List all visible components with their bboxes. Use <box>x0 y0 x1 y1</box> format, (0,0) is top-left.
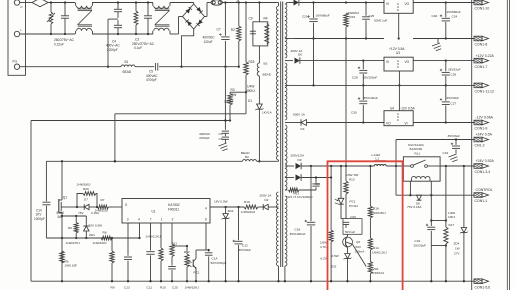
svg-text:R8: R8 <box>103 231 107 235</box>
svg-text:0.22uF: 0.22uF <box>54 43 64 47</box>
svg-text:B2: B2 <box>245 155 249 159</box>
svg-text:+24V 3.92A: +24V 3.92A <box>476 159 495 163</box>
svg-text:CONTROL: CONTROL <box>476 188 493 192</box>
svg-text:2: 2 <box>172 218 174 222</box>
inductor L1 <box>372 153 404 166</box>
svg-text:ZD4: ZD4 <box>454 241 460 245</box>
svg-text:6: 6 <box>205 218 207 222</box>
svg-text:R19: R19 <box>244 200 250 204</box>
varistor ZNR1 <box>47 1 55 35</box>
wire bridge left to AC <box>179 17 183 35</box>
terminal N (AC neutral) <box>14 28 22 37</box>
svg-text:35V33uF: 35V33uF <box>448 134 461 138</box>
connector CON1-5 6 <box>474 279 490 290</box>
regulator V1 <box>384 0 474 39</box>
resistor R14 <box>368 238 387 262</box>
svg-text:BEAD: BEAD <box>123 70 132 74</box>
svg-text:VI: VI <box>405 121 408 125</box>
fuse F1 <box>20 0 48 7</box>
resistor R9 <box>110 237 114 283</box>
svg-text:D: D <box>397 65 399 69</box>
svg-text:R11: R11 <box>172 242 178 246</box>
wire bridge top corner <box>193 3 195 5</box>
svg-text:C13: C13 <box>124 286 130 290</box>
capacitor C10 <box>34 161 50 238</box>
svg-text:R12: R12 <box>184 250 190 254</box>
svg-text:CON1-1: CON1-1 <box>475 199 488 203</box>
resistor R19 <box>241 200 258 214</box>
svg-text:3: 3 <box>127 218 129 222</box>
relay coil wires <box>410 181 431 195</box>
diode D5 <box>294 0 385 6</box>
connector CON1-7 <box>474 54 495 69</box>
svg-text:B1: B1 <box>125 60 129 64</box>
ferrite bead B1 <box>20 60 135 74</box>
resistor R17 <box>444 165 456 283</box>
svg-text:330KJ: 330KJ <box>224 99 233 103</box>
op-amp U1 KA7552 <box>122 199 210 224</box>
svg-text:C40: C40 <box>432 14 438 18</box>
svg-text:CON1-3,4: CON1-3,4 <box>475 170 491 174</box>
svg-text:1: 1 <box>161 218 163 222</box>
svg-text:R25: R25 <box>249 60 255 64</box>
svg-text:1W4.7J 1KV1000pF: 1W4.7J 1KV1000pF <box>286 195 313 199</box>
svg-text:120uF: 120uF <box>204 40 213 44</box>
snubber R4 C9 <box>249 3 269 64</box>
svg-text:4: 4 <box>138 218 140 222</box>
svg-text:C24: C24 <box>452 14 458 18</box>
svg-text:16V680uF: 16V680uF <box>447 10 461 14</box>
wire AC top <box>48 2 194 4</box>
wire primary return <box>31 119 230 281</box>
svg-text:35V33uF: 35V33uF <box>239 248 252 252</box>
svg-text:R17: R17 <box>449 223 455 227</box>
svg-text:C14: C14 <box>315 182 321 186</box>
page border right <box>507 0 509 290</box>
resistor R12 <box>172 245 190 283</box>
svg-text:16V680uF: 16V680uF <box>316 14 330 18</box>
transformer T3 <box>276 2 299 283</box>
svg-text:1/4W100J: 1/4W100J <box>93 241 107 245</box>
svg-text:C3: C3 <box>135 37 139 41</box>
ground C19 <box>449 154 458 162</box>
capacitor C28 <box>352 61 377 87</box>
resistor R13 <box>344 166 359 219</box>
svg-text:1KV1A: 1KV1A <box>262 111 273 115</box>
photocoupler PC1 LED <box>335 165 358 219</box>
diode D1 <box>248 99 273 162</box>
svg-text:R10: R10 <box>160 286 166 290</box>
AC input connector housing <box>8 0 26 75</box>
resistor R3 <box>224 88 246 121</box>
svg-text:D: D <box>397 8 399 12</box>
svg-text:400VAC: 400VAC <box>199 132 211 136</box>
svg-text:C29: C29 <box>350 215 356 219</box>
resistor R16 <box>344 11 360 167</box>
capacitor C5 <box>135 63 239 82</box>
diode D8 relay <box>407 195 422 209</box>
svg-text:VR1: VR1 <box>373 267 379 271</box>
connector CN1-2 <box>474 133 493 148</box>
svg-text:R7: R7 <box>101 198 105 202</box>
svg-text:4: 4 <box>205 206 207 210</box>
wire control line <box>396 166 474 196</box>
resistor R25 <box>244 3 256 114</box>
svg-text:4700pF: 4700pF <box>146 78 157 82</box>
wire U1 vcc <box>210 206 244 208</box>
svg-text:0.1uF: 0.1uF <box>134 46 142 50</box>
resistor R2 <box>231 3 241 68</box>
wire source node <box>61 215 86 217</box>
svg-text:+24V 0.5A: +24V 0.5A <box>476 133 493 137</box>
resistor R7 <box>95 198 123 212</box>
svg-text:35V1000uF: 35V1000uF <box>290 232 306 236</box>
regulator U4 <box>384 85 474 125</box>
connector CON1-8 <box>474 36 489 47</box>
svg-text:150mA: 150mA <box>355 250 366 254</box>
svg-text:0.5W: 0.5W <box>332 254 339 258</box>
svg-text:BEAD: BEAD <box>263 72 272 76</box>
diode D10 <box>296 166 333 181</box>
svg-text:C27: C27 <box>451 101 457 105</box>
svg-text:U4: U4 <box>390 106 394 110</box>
svg-text:35V33uF: 35V33uF <box>414 243 427 247</box>
svg-text:35V33uF: 35V33uF <box>448 67 461 71</box>
svg-text:PC111: PC111 <box>349 204 358 208</box>
svg-text:VO: VO <box>405 60 410 64</box>
capacitor C21 <box>302 3 330 87</box>
svg-text:C34: C34 <box>415 239 421 243</box>
svg-text:1/4W2.2KJ: 1/4W2.2KJ <box>146 234 162 238</box>
svg-text:C9: C9 <box>249 17 253 21</box>
transistor Q1 <box>57 161 78 281</box>
svg-text:500V 1A: 500V 1A <box>293 112 306 116</box>
svg-text:C30: C30 <box>351 110 357 114</box>
svg-text:C8: C8 <box>219 137 223 141</box>
zener ZD3 <box>214 200 234 283</box>
svg-text:D6: D6 <box>298 53 302 57</box>
svg-text:C18: C18 <box>295 228 301 232</box>
wire pin4 <box>138 223 140 239</box>
svg-text:1/6W2.2KJ: 1/6W2.2KJ <box>372 250 387 254</box>
svg-text:1W: 1W <box>455 247 460 251</box>
capacitor C7 <box>203 3 230 67</box>
relay RL1 <box>403 143 440 181</box>
svg-text:390KJ: 390KJ <box>246 89 255 93</box>
svg-text:D7: D7 <box>84 198 88 202</box>
svg-text:-12V 0.06A: -12V 0.06A <box>476 116 494 120</box>
connector CON1-10 <box>474 0 489 11</box>
capacitor C3 <box>132 1 155 50</box>
svg-text:250V/275V~AC: 250V/275V~AC <box>132 42 155 46</box>
svg-text:C11: C11 <box>147 286 153 290</box>
resistor R1 <box>134 1 138 35</box>
wire drain node <box>46 160 242 162</box>
svg-text:35V33uF: 35V33uF <box>447 96 460 100</box>
svg-text:R4: R4 <box>264 17 268 21</box>
svg-text:1/6W 150: 1/6W 150 <box>346 173 359 177</box>
photocoupler PC1 transistor <box>188 223 209 282</box>
svg-text:C28: C28 <box>352 75 358 79</box>
resistor R20 <box>76 183 98 209</box>
rail secondary gnd A <box>294 37 474 39</box>
capacitor C11 <box>146 223 154 282</box>
svg-text:7: 7 <box>150 218 152 222</box>
zener ZD1 <box>83 216 102 239</box>
svg-text:50V1uF: 50V1uF <box>345 230 355 234</box>
svg-text:U3: U3 <box>396 51 400 55</box>
svg-text:50V4700pF: 50V4700pF <box>211 261 227 265</box>
svg-text:5: 5 <box>125 203 127 207</box>
svg-text:B3: B3 <box>264 62 268 66</box>
connector CON1-9 <box>474 116 494 131</box>
svg-text:R3: R3 <box>231 88 235 92</box>
capacitor C17 vcc <box>233 207 252 282</box>
wire AC bottom <box>20 33 179 35</box>
regulator U3 <box>384 47 474 87</box>
svg-text:C19: C19 <box>443 151 449 155</box>
svg-text:260/275V~AC: 260/275V~AC <box>54 38 75 42</box>
svg-text:1W: 1W <box>232 93 237 97</box>
capacitor C4 (Y-caps) <box>106 1 122 68</box>
svg-text:Q2: Q2 <box>356 240 360 244</box>
capacitor C26 <box>440 61 461 87</box>
capacitor C1 <box>54 1 75 46</box>
svg-text:R20: R20 <box>83 187 89 191</box>
svg-text:+B: +B <box>236 0 240 3</box>
svg-text:60V: 60V <box>356 245 362 249</box>
wire node gate-feed <box>114 114 246 163</box>
svg-text:C7: C7 <box>217 28 221 32</box>
svg-text:CON1-11,12: CON1-11,12 <box>475 90 494 94</box>
connector CON1-3 4 <box>474 159 495 174</box>
svg-text:2200pF: 2200pF <box>107 48 118 52</box>
resistor R11 <box>170 223 177 257</box>
svg-text:CON1-10: CON1-10 <box>475 7 490 11</box>
wire sense <box>46 237 140 239</box>
svg-text:C1A: C1A <box>212 256 219 260</box>
common-mode choke T2 <box>153 3 170 35</box>
svg-text:FG: FG <box>13 60 18 64</box>
capacitor C19 <box>443 134 461 155</box>
svg-text:ZD1: ZD1 <box>89 233 95 237</box>
svg-text:R5: R5 <box>68 226 72 230</box>
capacitor C27 <box>440 85 459 122</box>
svg-text:1/4W15KJ: 1/4W15KJ <box>185 286 200 290</box>
transistor Q2 <box>343 234 367 266</box>
connector bus line CON1 <box>471 0 473 290</box>
connector CON1-1 <box>474 188 493 203</box>
resistor R18 <box>368 165 386 238</box>
svg-text:4700pF: 4700pF <box>199 136 210 140</box>
capacitor C12 <box>205 249 227 283</box>
resistor R8 <box>66 231 113 245</box>
svg-text:1/4W27KJ: 1/4W27KJ <box>66 241 81 245</box>
jumper J1 <box>211 0 222 5</box>
svg-text:VI: VI <box>386 60 389 64</box>
diode D4 <box>293 112 384 131</box>
svg-text:C12: C12 <box>242 243 248 247</box>
wire pin3 C13 <box>124 223 132 282</box>
svg-text:R2: R2 <box>231 28 235 32</box>
red highlight annotation <box>328 161 403 290</box>
connector CON1-11 12 <box>474 83 494 94</box>
ferrite bead B3 <box>257 62 271 104</box>
svg-text:D: D <box>397 118 399 122</box>
svg-text:18V 0.5W: 18V 0.5W <box>214 200 228 204</box>
capacitor C30 <box>351 85 378 122</box>
capacitor C15 <box>168 257 176 283</box>
svg-text:20V 0.5W: 20V 0.5W <box>89 223 103 227</box>
ferrite bead B2 <box>241 151 277 161</box>
snubber R21 C14 <box>286 176 321 199</box>
diode D2 <box>258 194 277 210</box>
svg-text:1/4W220J: 1/4W220J <box>95 208 109 212</box>
rail secondary gnd B <box>294 84 474 86</box>
svg-text:CN1-2: CN1-2 <box>475 144 485 148</box>
terminal L (AC line) <box>14 0 22 9</box>
svg-text:1/6W: 1/6W <box>320 241 327 245</box>
svg-text:FA5311: FA5311 <box>168 208 179 212</box>
svg-text:D9: D9 <box>298 158 302 162</box>
svg-text:PC1: PC1 <box>350 200 356 204</box>
svg-text:PC1: PC1 <box>194 270 200 274</box>
svg-text:VO: VO <box>405 2 410 6</box>
capacitor C29 <box>341 215 362 234</box>
ground sec A <box>432 39 441 51</box>
zener ZD4 <box>454 165 468 283</box>
svg-text:C26: C26 <box>451 73 457 77</box>
capacitor C34 <box>414 195 446 282</box>
label row bottom refs <box>111 286 200 290</box>
zener D7 <box>77 198 100 215</box>
capacitor C6 C8 <box>199 67 229 144</box>
svg-text:CON1-5,6: CON1-5,6 <box>475 285 491 289</box>
resistor R5 <box>68 216 78 239</box>
wire primary bottom rail <box>31 280 474 282</box>
svg-text:-12V 0.5A: -12V 0.5A <box>400 106 415 110</box>
svg-text:R16: R16 <box>350 15 356 19</box>
svg-text:0.5W1KJ: 0.5W1KJ <box>372 271 385 275</box>
capacitor C25 <box>362 3 387 39</box>
svg-text:U1: U1 <box>152 209 156 213</box>
svg-text:5A30V90: 5A30V90 <box>410 147 423 151</box>
svg-text:D1: D1 <box>248 99 252 103</box>
svg-text:C15: C15 <box>172 286 178 290</box>
diode D9 <box>291 154 375 170</box>
capacitor C18 <box>290 166 316 282</box>
wire +24V out <box>440 165 474 167</box>
bridge rectifier BD1 <box>183 4 205 29</box>
svg-text:35V100uF: 35V100uF <box>363 75 377 79</box>
svg-text:C6: C6 <box>219 132 223 136</box>
svg-text:ZD3: ZD3 <box>228 209 234 213</box>
svg-text:1/6W6.8KJ: 1/6W6.8KJ <box>371 211 386 215</box>
svg-text:L1: L1 <box>376 157 380 161</box>
svg-text:35V100uF: 35V100uF <box>364 96 378 100</box>
svg-text:1W0.15F: 1W0.15F <box>65 264 78 268</box>
svg-text:CON1-8: CON1-8 <box>475 43 488 47</box>
svg-text:50V0.1uF: 50V0.1uF <box>374 18 388 22</box>
wire DC+ bus <box>222 0 276 4</box>
svg-text:1/4W22ΩJ: 1/4W22ΩJ <box>241 210 256 214</box>
svg-text:R9: R9 <box>111 286 115 290</box>
svg-text:C21: C21 <box>302 14 308 18</box>
svg-text:L: L <box>21 28 23 32</box>
svg-text:R13: R13 <box>349 177 355 181</box>
svg-text:VO: VO <box>386 121 391 125</box>
svg-text:10KJ: 10KJ <box>448 215 456 219</box>
terminal FG (frame ground) <box>13 60 20 70</box>
svg-text:CON1-9: CON1-9 <box>475 127 488 131</box>
wire bridge DC+ corner <box>205 3 212 17</box>
label 2.2K <box>146 234 162 238</box>
diode D6 <box>291 49 385 64</box>
svg-text:N: N <box>21 5 23 9</box>
resistor R10 <box>159 223 163 282</box>
svg-text:+12V 0.22A: +12V 0.22A <box>476 54 495 58</box>
svg-text:75V: 75V <box>78 211 84 215</box>
svg-text:75V 0.15A: 75V 0.15A <box>407 205 422 209</box>
wire +24V aux <box>395 138 474 167</box>
svg-text:RL1: RL1 <box>415 151 421 155</box>
potentiometer VR1 <box>368 262 384 283</box>
svg-text:VI: VI <box>386 2 389 6</box>
resistor R22 feedback divider <box>320 178 333 283</box>
svg-text:200V1/2A: 200V1/2A <box>291 154 306 158</box>
svg-text:KA7552: KA7552 <box>168 203 180 207</box>
svg-text:27V: 27V <box>454 251 460 255</box>
svg-text:C4: C4 <box>112 39 116 43</box>
capacitor C24 <box>432 3 461 39</box>
svg-text:1000pF: 1000pF <box>34 217 45 221</box>
svg-text:D4: D4 <box>301 127 305 131</box>
svg-text:D2: D2 <box>265 198 269 202</box>
common-mode choke T1 <box>76 3 93 35</box>
ground primary chassis <box>219 143 228 151</box>
zener ZD2 <box>321 251 352 282</box>
wire bridge DC- corner <box>180 29 193 68</box>
resistor R6 <box>60 251 77 282</box>
svg-text:Q1: Q1 <box>63 195 67 199</box>
svg-text:CON1-7: CON1-7 <box>475 65 488 69</box>
